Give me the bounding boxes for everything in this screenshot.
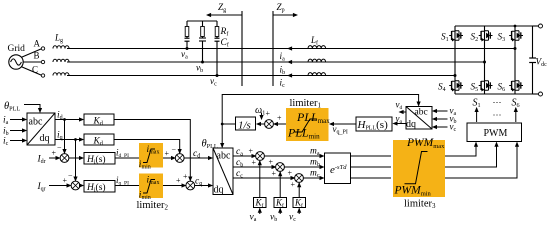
switch S4 [449, 79, 463, 91]
input vb to Kf b [279, 209, 281, 215]
wire id row [55, 119, 83, 121]
svg-text:Grid: Grid [8, 44, 26, 54]
switch S2 [479, 29, 493, 41]
block 1/s [236, 117, 256, 130]
svg-text:+: + [266, 109, 271, 118]
wire phase B [67, 61, 485, 63]
current arrow ib [287, 60, 292, 64]
wire iq down to sum4 [75, 140, 77, 181]
wire Kf a to sumA [259, 161, 261, 198]
wire sum4 to Hi4 [80, 185, 84, 187]
dc link capacitor Vdc [532, 26, 534, 58]
svg-text:+: + [165, 149, 170, 158]
wire grid to phase B terminal [23, 61, 41, 63]
svg-text:abc: abc [415, 108, 428, 118]
wire limiter3 a to PWM [445, 143, 476, 157]
wire Kd2 to sumD [114, 140, 180, 154]
switch S5 [479, 79, 493, 91]
wire grid to phase A terminal [22, 49, 42, 58]
wire Hi4 to limiter2b [115, 185, 139, 187]
grid source G [9, 55, 23, 69]
summer sumA [256, 152, 265, 161]
svg-text:Hi(s): Hi(s) [86, 154, 106, 166]
wire Hi3 to limiter2a [115, 157, 139, 159]
current arrow ia [287, 46, 292, 50]
inductor Lg phase C [53, 73, 69, 76]
svg-text:+: + [183, 172, 188, 181]
wires delay to limiter3 [351, 155, 392, 157]
node rail joints [514, 25, 517, 28]
svg-text:+: + [272, 169, 277, 178]
bridge leg 2 [484, 26, 486, 94]
svg-text:C: C [32, 65, 38, 75]
wire HPLL to limiter1 [330, 123, 356, 125]
block HPLL(s) [356, 117, 392, 131]
block Kf b [274, 198, 287, 208]
block Kf a [254, 198, 267, 208]
svg-text:−: − [57, 144, 62, 153]
svg-text:PWM: PWM [484, 128, 508, 139]
wire vq block3 to HPLL [394, 123, 407, 125]
block Kd 1 [84, 114, 114, 125]
resistor Rf branch b [202, 21, 204, 27]
limiter2b [139, 174, 163, 199]
block Hi(s) 3 [84, 153, 115, 165]
wire Kf b to sumB [279, 172, 281, 198]
capacitor Cf branch b [199, 37, 206, 39]
wire limiter3 c to PWM [445, 143, 517, 179]
CONTROL [3, 95, 522, 224]
svg-text:A: A [34, 39, 41, 49]
switch S6 [509, 79, 523, 91]
wire thetaPLL to block top [24, 105, 40, 113]
switch S1 [449, 29, 463, 41]
resistor Rf branch a [186, 21, 188, 27]
inductor Lg phase A [53, 46, 69, 49]
block Kd 2 [84, 134, 114, 145]
wire thetaPLL into block2 top [221, 124, 223, 147]
inductor Lf phase C [308, 73, 326, 76]
gate arrow S6 [515, 108, 517, 122]
wire cc to sumC [233, 177, 295, 179]
wire sum3 to Hi3 [69, 157, 84, 159]
inductor Lf phase A [308, 46, 326, 49]
output vd stub [400, 111, 407, 113]
wire phase A [67, 48, 515, 50]
input va stub [433, 110, 448, 112]
limiter3 [393, 140, 445, 197]
node va [186, 47, 189, 50]
bridge top rail [455, 25, 533, 27]
block delay e-sTd [325, 153, 351, 184]
terminal C [41, 74, 44, 77]
summer sumQ [186, 181, 195, 190]
svg-text:limiter1: limiter1 [290, 98, 322, 110]
input vc stub [433, 126, 448, 128]
Zp arrow [273, 14, 297, 16]
node phase B leg2 [483, 61, 486, 64]
wire Kf c to sumC [298, 183, 300, 198]
svg-text:B: B [34, 51, 40, 61]
svg-text:limiter2: limiter2 [137, 200, 169, 212]
svg-text:+: + [291, 180, 296, 189]
wire limiter1 to sumPLL [274, 123, 286, 125]
transform block abc-dq currents U1 [27, 113, 55, 145]
bridge leg 3 [514, 26, 516, 94]
RC filter top bus [187, 20, 217, 22]
wire mb to delay block [284, 166, 324, 168]
summer sumD [175, 154, 184, 163]
MAIN CIRCUIT [8, 2, 548, 96]
limiter1 [286, 108, 329, 141]
block Kf c [293, 198, 306, 208]
svg-text:abc: abc [217, 151, 231, 162]
node phase A leg3 [514, 47, 517, 50]
bridge leg 1 [454, 26, 456, 94]
summer sumB [276, 163, 285, 172]
terminal A [41, 47, 44, 50]
capacitor Cf branch c [215, 37, 220, 39]
svg-text:⋯: ⋯ [493, 110, 502, 120]
node iq [74, 138, 77, 141]
resistor Rf branch c [216, 21, 218, 27]
wire limiter2b to sumQ [163, 185, 186, 187]
svg-text:+: + [249, 147, 254, 156]
dc terminal plus [533, 25, 539, 27]
node vb [201, 61, 204, 64]
node theta junction [221, 123, 224, 126]
wire phase C [67, 75, 455, 77]
wire Kd1 to sumQ [114, 120, 190, 181]
limiter2a [139, 143, 163, 168]
wire limiter2a to sumD [163, 157, 175, 159]
bridge bottom rail [455, 93, 533, 95]
terminal B [41, 60, 44, 63]
wire ca to sumA [233, 155, 256, 157]
svg-text:+: + [176, 176, 181, 185]
input va to Kf a [259, 209, 261, 215]
svg-text:⋯: ⋯ [493, 97, 502, 107]
wire 1/s to theta node [222, 123, 235, 125]
svg-text:−: − [172, 146, 177, 155]
wire grid to phase C terminal [22, 67, 42, 76]
switch S3 [509, 29, 523, 41]
svg-text:dq: dq [40, 133, 50, 144]
Zp boundary line [272, 11, 274, 86]
svg-text:+: + [252, 158, 257, 167]
inductor Lf phase B [308, 59, 326, 62]
inductor Lg phase B [53, 59, 69, 62]
summer sum4 [71, 181, 80, 190]
wire sumPLL to 1/s [257, 123, 265, 125]
wire cq to block2 [194, 185, 212, 187]
wire mc to delay block [303, 177, 324, 179]
wire cb to sumB [233, 166, 276, 168]
wire id down to sum3 [64, 120, 66, 154]
theta routing wire up and right [222, 95, 418, 125]
wire limiter3 b to PWM [445, 143, 497, 168]
svg-text:Hi(s): Hi(s) [86, 182, 106, 194]
capacitor Cf branch a [185, 37, 190, 39]
dc terminal minus [533, 93, 539, 95]
block Hi(s) 4 [84, 181, 115, 193]
gate arrow S1 [476, 108, 478, 122]
svg-text:+: + [288, 169, 293, 178]
node phase C leg1 [454, 74, 457, 77]
wire cd to block2 [184, 157, 212, 159]
node vc [216, 74, 219, 77]
node id [63, 118, 66, 121]
wire iq row [55, 139, 83, 141]
svg-text:+: + [277, 114, 282, 123]
transform block abc-dq voltages U3 [406, 107, 432, 130]
Zg arrow [207, 14, 242, 16]
svg-text:+: + [269, 158, 274, 167]
Zg boundary line [241, 11, 243, 86]
block PWM [467, 123, 522, 142]
svg-text:limiter3: limiter3 [404, 199, 436, 211]
svg-text:−: − [68, 171, 73, 180]
summer sumC [295, 174, 304, 183]
svg-text:dq: dq [406, 119, 416, 130]
summer sumPLL [265, 120, 274, 129]
svg-text:dq: dq [214, 185, 224, 196]
summer sum3 [60, 154, 69, 163]
input vb stub [433, 118, 448, 120]
input vc to Kf c [298, 209, 300, 215]
wire ma to delay block [264, 155, 324, 157]
transform block dq-abc U2 [213, 148, 233, 195]
svg-text:1/s: 1/s [238, 120, 251, 132]
svg-text:abc: abc [29, 117, 43, 128]
current arrow ic [287, 73, 292, 77]
